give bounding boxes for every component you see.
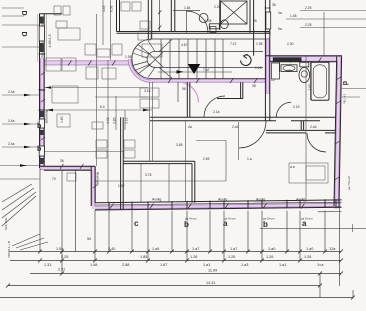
- svg-text:Avveigde: Avveigde: [96, 172, 100, 186]
- svg-text:1.a1: 1.a1: [203, 263, 210, 267]
- svg-text:a.a: a.a: [290, 165, 295, 169]
- svg-text:1.a0: 1.a0: [268, 247, 275, 251]
- svg-text:36: 36: [60, 159, 64, 163]
- svg-text:b: b: [263, 220, 268, 229]
- svg-text:70: 70: [52, 177, 56, 181]
- svg-text:1.05: 1.05: [205, 19, 212, 23]
- svg-text:Avvlig: Avvlig: [256, 198, 265, 202]
- svg-text:1.95: 1.95: [256, 42, 263, 46]
- svg-text:c: c: [134, 219, 139, 228]
- svg-text:1.48: 1.48: [290, 14, 297, 18]
- svg-text:2.88: 2.88: [122, 263, 129, 267]
- svg-text:3.85: 3.85: [113, 117, 117, 124]
- svg-text:2.25: 2.25: [61, 255, 68, 259]
- svg-text:2.19: 2.19: [293, 105, 300, 109]
- svg-text:1.48: 1.48: [90, 263, 97, 267]
- svg-text:11.99: 11.99: [208, 269, 217, 273]
- svg-text:1.26: 1.26: [228, 255, 235, 259]
- svg-text:2.4a: 2.4a: [8, 142, 15, 146]
- svg-text:4.67: 4.67: [181, 43, 188, 47]
- svg-text:D: D: [20, 11, 27, 16]
- svg-text:38: 38: [252, 84, 256, 88]
- svg-text:1.84: 1.84: [184, 6, 191, 10]
- svg-text:1.5b: 1.5b: [56, 247, 63, 251]
- svg-text:4a: 4a: [278, 11, 282, 15]
- svg-text:2.25: 2.25: [305, 23, 312, 27]
- svg-text:4.49×1.9: 4.49×1.9: [48, 34, 52, 47]
- svg-text:48: 48: [287, 69, 291, 73]
- svg-text:2.a3: 2.a3: [310, 125, 317, 129]
- svg-text:1.a7: 1.a7: [192, 247, 199, 251]
- svg-text:Avvlig: Avvlig: [152, 198, 161, 202]
- svg-text:2.4a: 2.4a: [8, 90, 15, 94]
- svg-text:14 T.9x: 14 T.9x: [343, 94, 347, 104]
- svg-text:1.a1: 1.a1: [279, 263, 286, 267]
- svg-text:4a: 4a: [188, 125, 192, 129]
- svg-text:pa 77a-cm: pa 77a-cm: [347, 175, 351, 190]
- svg-text:6.4: 6.4: [100, 105, 105, 109]
- svg-text:1.a7: 1.a7: [230, 247, 237, 251]
- svg-text:50: 50: [87, 237, 91, 241]
- svg-text:1.32: 1.32: [118, 184, 125, 188]
- svg-text:2.03: 2.03: [308, 84, 312, 91]
- svg-text:b: b: [184, 220, 189, 229]
- svg-text:14.31: 14.31: [206, 281, 216, 285]
- svg-text:12a: 12a: [329, 247, 336, 251]
- svg-text:7.47: 7.47: [230, 42, 237, 46]
- svg-text:1.85: 1.85: [140, 255, 147, 259]
- svg-text:1.a0: 1.a0: [306, 247, 313, 251]
- svg-text:2.22: 2.22: [58, 268, 65, 272]
- svg-text:b: b: [37, 146, 41, 153]
- svg-text:1.16: 1.16: [255, 66, 262, 70]
- svg-text:1.26: 1.26: [266, 255, 273, 259]
- svg-text:2.25: 2.25: [305, 6, 312, 10]
- svg-text:2.40: 2.40: [108, 247, 115, 251]
- svg-text:2.65: 2.65: [203, 157, 210, 161]
- svg-text:S19. D/G: S19. D/G: [4, 217, 8, 230]
- svg-text:1.95: 1.95: [125, 55, 132, 59]
- svg-text:12: 12: [271, 78, 275, 82]
- svg-text:Avvlig: Avvlig: [218, 198, 227, 202]
- svg-text:95: 95: [253, 19, 257, 23]
- svg-text:1.26: 1.26: [190, 255, 197, 259]
- svg-text:2.30: 2.30: [287, 42, 294, 46]
- svg-text:1.a5: 1.a5: [152, 247, 159, 251]
- svg-text:D: D: [20, 32, 27, 37]
- svg-text:1.33: 1.33: [44, 263, 51, 267]
- svg-text:3.16: 3.16: [144, 89, 151, 93]
- svg-text:a: a: [223, 219, 228, 228]
- svg-text:2.4a: 2.4a: [8, 119, 15, 123]
- svg-text:1.26: 1.26: [304, 255, 311, 259]
- svg-text:2.26: 2.26: [214, 5, 221, 9]
- svg-text:2.a3: 2.a3: [232, 125, 239, 129]
- svg-text:3.65: 3.65: [176, 143, 183, 147]
- svg-text:VORM A + B: VORM A + B: [7, 241, 11, 258]
- svg-text:1<a: 1<a: [317, 263, 324, 267]
- svg-text:9a: 9a: [278, 27, 282, 31]
- svg-text:4.49: 4.49: [106, 117, 110, 124]
- svg-text:1.60: 1.60: [60, 116, 64, 123]
- svg-text:4.49: 4.49: [102, 5, 106, 12]
- svg-text:3.76: 3.76: [145, 173, 152, 177]
- svg-text:3.16: 3.16: [125, 117, 129, 124]
- svg-text:2.1a: 2.1a: [213, 110, 220, 114]
- svg-text:6.03: 6.03: [110, 5, 114, 12]
- svg-text:d: d: [341, 81, 348, 85]
- svg-text:1.a3: 1.a3: [241, 263, 248, 267]
- svg-text:Avvlig: Avvlig: [296, 198, 305, 202]
- svg-text:1.a: 1.a: [247, 157, 252, 161]
- svg-text:96: 96: [182, 87, 186, 91]
- svg-text:7.a7: 7.a7: [203, 68, 210, 72]
- svg-text:1.87: 1.87: [160, 263, 167, 267]
- svg-text:Avveigde: Avveigde: [45, 110, 49, 124]
- svg-text:36: 36: [272, 3, 276, 7]
- svg-text:b: b: [37, 123, 41, 130]
- svg-text:a: a: [302, 219, 307, 228]
